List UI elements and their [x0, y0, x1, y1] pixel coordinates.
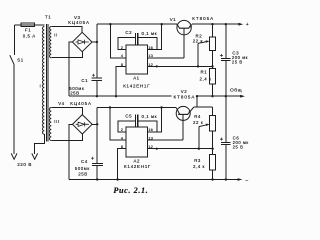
svg-text:S1: S1: [17, 58, 23, 63]
capacitor C3 plates: [221, 58, 230, 60]
svg-text:16: 16: [148, 45, 153, 50]
mains arrow right chevron: [32, 153, 38, 159]
node pin4 A2 raw rail junction: [109, 106, 111, 108]
C1 plus mark: [92, 74, 95, 77]
wire pin 12 of A2 to divider: [147, 148, 212, 150]
resistor R1 body: [210, 69, 216, 84]
svg-text:22 к: 22 к: [193, 120, 203, 125]
capacitor C5 plates: [136, 115, 138, 128]
fuse F1 body: [21, 23, 35, 26]
transformer T1 secondary winding III: [49, 108, 51, 141]
svg-text:22 к: 22 к: [193, 38, 203, 43]
transformer T1 primary winding: [43, 27, 45, 135]
svg-text:III: III: [54, 119, 59, 124]
svg-text:Рис. 2.1.: Рис. 2.1.: [113, 186, 148, 195]
V2 base bar: [178, 113, 188, 115]
svg-text:25 В: 25 В: [233, 145, 244, 150]
transformer T1 secondary winding II: [50, 27, 52, 58]
V1 emitter slant: [189, 24, 192, 28]
resistor R3 body: [210, 155, 216, 170]
node R3 bottom junction: [211, 178, 213, 180]
wire C5 left lead to pin 2: [118, 121, 135, 132]
node R2 R1 pin12 junction: [211, 65, 213, 67]
wire bottom DC column with C4: [96, 108, 98, 180]
svg-text:R4: R4: [194, 114, 201, 119]
svg-text:500мк: 500мк: [75, 166, 90, 171]
wire pin 8 of A2 to bottom rail: [118, 149, 126, 180]
svg-text:T1: T1: [45, 15, 51, 20]
wire output plus arrow shaft: [226, 23, 241, 25]
svg-text:12: 12: [148, 144, 153, 149]
svg-text:V2: V2: [181, 89, 187, 94]
svg-text:КТ805А: КТ805А: [174, 95, 196, 100]
svg-text:C1: C1: [81, 78, 88, 83]
svg-text:–: –: [245, 177, 248, 183]
svg-text:A2: A2: [134, 158, 140, 163]
node pin4 A1 rail junction: [109, 23, 111, 25]
wire R1 leads: [212, 66, 214, 96]
wire bottom rail: [69, 179, 226, 181]
transformer T1 core: [46, 24, 48, 141]
V1 emitter arrow: [189, 25, 192, 28]
node C1 common junction: [96, 95, 98, 97]
capacitor C6 plates: [221, 143, 230, 145]
node C6 bottom junction: [225, 178, 227, 180]
wire C5 right lead to pin 16: [138, 121, 157, 132]
wire R3 leads: [212, 149, 214, 180]
wire R2 bottom lead: [212, 50, 214, 66]
wire pin 4 of A1 branch: [110, 24, 126, 58]
switch S1 blade: [10, 55, 14, 64]
transistor V1 circle: [177, 20, 191, 34]
wire R2 top lead: [212, 24, 214, 37]
svg-text:A1: A1: [133, 76, 139, 81]
wire pin 4 of A2 branch: [110, 108, 126, 141]
wire R4 top lead: [212, 107, 214, 116]
node R4 wiper pin12 junction: [198, 148, 200, 150]
node R1 common junction: [211, 95, 213, 97]
wire V4 minus lead to bottom rail: [69, 124, 73, 179]
svg-text:КЦ405А: КЦ405А: [70, 101, 92, 106]
svg-text:C2: C2: [125, 30, 132, 35]
node pin12 A1 stub junction: [156, 65, 158, 67]
wire pin 12 of A1 to divider: [147, 65, 212, 67]
svg-text:C5: C5: [125, 114, 132, 119]
node R2 top rail junction: [211, 23, 213, 25]
potentiometer R2 body: [210, 37, 216, 50]
wire secondary II top lead: [51, 27, 82, 33]
svg-text:К142ЕН1Г: К142ЕН1Г: [123, 84, 150, 89]
svg-text:0,5 А: 0,5 А: [23, 34, 36, 39]
node C3 top rail junction: [225, 23, 227, 25]
svg-text:К142ЕН1Г: К142ЕН1Г: [124, 164, 151, 169]
V2 collector slant: [176, 108, 180, 115]
svg-text:II: II: [54, 32, 58, 37]
svg-text:12: 12: [148, 62, 153, 67]
wire pin 16 of A1 branch: [147, 24, 161, 49]
C4 plus mark: [91, 157, 94, 160]
wire R4 bottom lead: [212, 131, 214, 149]
bridge rectifier V3 diamond: [72, 32, 92, 51]
wire below switch S1: [13, 65, 15, 154]
potentiometer R4 body: [210, 116, 216, 131]
wire pin 13 of A2 to base of V2: [147, 139, 183, 141]
V1 collector slant: [177, 24, 180, 28]
diode inside V3: [76, 40, 89, 44]
svg-text:КЦ405А: КЦ405А: [68, 20, 90, 25]
wire V3 minus lead to common rail: [69, 42, 73, 96]
svg-text:0,1 мк: 0,1 мк: [142, 114, 158, 119]
wire bottom raw rail: [97, 107, 176, 109]
svg-text:F1: F1: [25, 27, 31, 32]
V2 emitter arrow: [188, 110, 191, 113]
wire pin 13 of A1 to base of V1: [147, 57, 184, 59]
R2 wiper arrow: [198, 42, 207, 44]
wire secondary III top lead: [51, 108, 82, 115]
wire pin 16 of A2 branch: [147, 108, 161, 132]
regulator A2 box: [126, 127, 147, 157]
wire top rail emitter side: [192, 23, 226, 25]
wire top DC column with C1: [96, 24, 98, 96]
svg-text:C4: C4: [81, 159, 88, 164]
svg-text:25В: 25В: [78, 171, 87, 176]
svg-text:Общ: Общ: [230, 88, 242, 94]
wire secondary III bottom lead: [51, 134, 82, 140]
diode inside V4: [76, 122, 89, 126]
node R4 R3 pin12 junction: [211, 148, 213, 150]
wire C2 left lead to pin 2: [118, 38, 135, 50]
common rail arrowhead: [240, 95, 245, 98]
node pin16 A1 rail junction: [161, 23, 163, 25]
mains arrow left chevron: [11, 153, 17, 159]
svg-text:2,4 к: 2,4 к: [200, 76, 212, 81]
node R2 wiper pin12 junction: [197, 65, 199, 67]
wire R4 wiper down to pin 12 line: [198, 127, 200, 149]
wire secondary II bottom lead: [51, 52, 82, 58]
wire R2 wiper down to pin 12 line: [197, 43, 199, 66]
wire V2 emitter node to common rail: [196, 96, 198, 107]
wire V4 plus lead: [92, 123, 97, 125]
svg-text:КТ805А: КТ805А: [192, 16, 214, 21]
node V2 emitter common junction: [196, 95, 198, 97]
node pin8 A2 bottom junction: [116, 178, 118, 180]
V2 emitter slant: [188, 107, 194, 114]
wire V3 plus lead: [92, 41, 97, 43]
node V3 plus junction: [96, 41, 98, 43]
capacitor C4 plates: [92, 163, 103, 165]
wire common rail arrow shaft: [226, 95, 243, 97]
wire V2 emitter to R4 top: [194, 106, 213, 108]
wire output minus arrow shaft: [226, 179, 240, 181]
wire mains top lead through fuse: [15, 24, 45, 26]
node pin12 A2 stub junction: [156, 148, 158, 150]
wire primary bottom lead: [35, 134, 45, 154]
svg-text:R1: R1: [201, 70, 208, 75]
output minus arrowhead: [238, 178, 243, 181]
node V4 plus junction: [96, 123, 98, 125]
R4 wiper arrow: [199, 125, 207, 127]
V1 base bar: [179, 27, 189, 29]
svg-text:2,4 к: 2,4 к: [193, 164, 205, 169]
wire V1 base down: [183, 28, 185, 58]
C3 plus mark: [220, 54, 223, 57]
node C4 bottom junction: [96, 178, 98, 180]
svg-text:25В: 25В: [70, 91, 79, 96]
svg-text:13: 13: [148, 53, 153, 58]
node C3 C6 common junction: [225, 95, 227, 97]
svg-text:R3: R3: [194, 158, 201, 163]
svg-text:25 В: 25 В: [232, 60, 243, 65]
svg-text:16: 16: [148, 127, 153, 132]
wire top rail collector side: [97, 23, 177, 25]
svg-text:220 В: 220 В: [17, 162, 32, 167]
wire C2 right lead to pin 16: [138, 38, 157, 50]
node pin8 A1 common junction: [115, 95, 117, 97]
wire common rail right part: [197, 95, 226, 97]
wire C3 C6 column: [225, 24, 227, 179]
transistor V2 circle: [176, 106, 190, 120]
output plus arrowhead: [238, 23, 243, 26]
capacitor C2 plates: [136, 33, 138, 45]
node pin16 A2 raw rail junction: [160, 106, 162, 108]
regulator A1 box: [126, 45, 147, 74]
capacitor C1 plates: [92, 78, 103, 80]
wire mains left lead down to switch: [14, 25, 16, 55]
svg-text:I: I: [40, 84, 42, 89]
bridge rectifier V4 diamond: [73, 115, 93, 134]
svg-text:V4: V4: [58, 101, 64, 106]
svg-text:V1: V1: [170, 17, 176, 22]
wire pin 8 of A1 to common rail: [116, 66, 126, 96]
svg-text:0,1 мк: 0,1 мк: [142, 31, 158, 36]
svg-text:+: +: [246, 22, 249, 28]
wire common rail left part: [69, 95, 172, 97]
C6 plus mark: [220, 138, 223, 141]
wire V2 base down: [182, 114, 184, 140]
svg-text:13: 13: [148, 136, 153, 141]
